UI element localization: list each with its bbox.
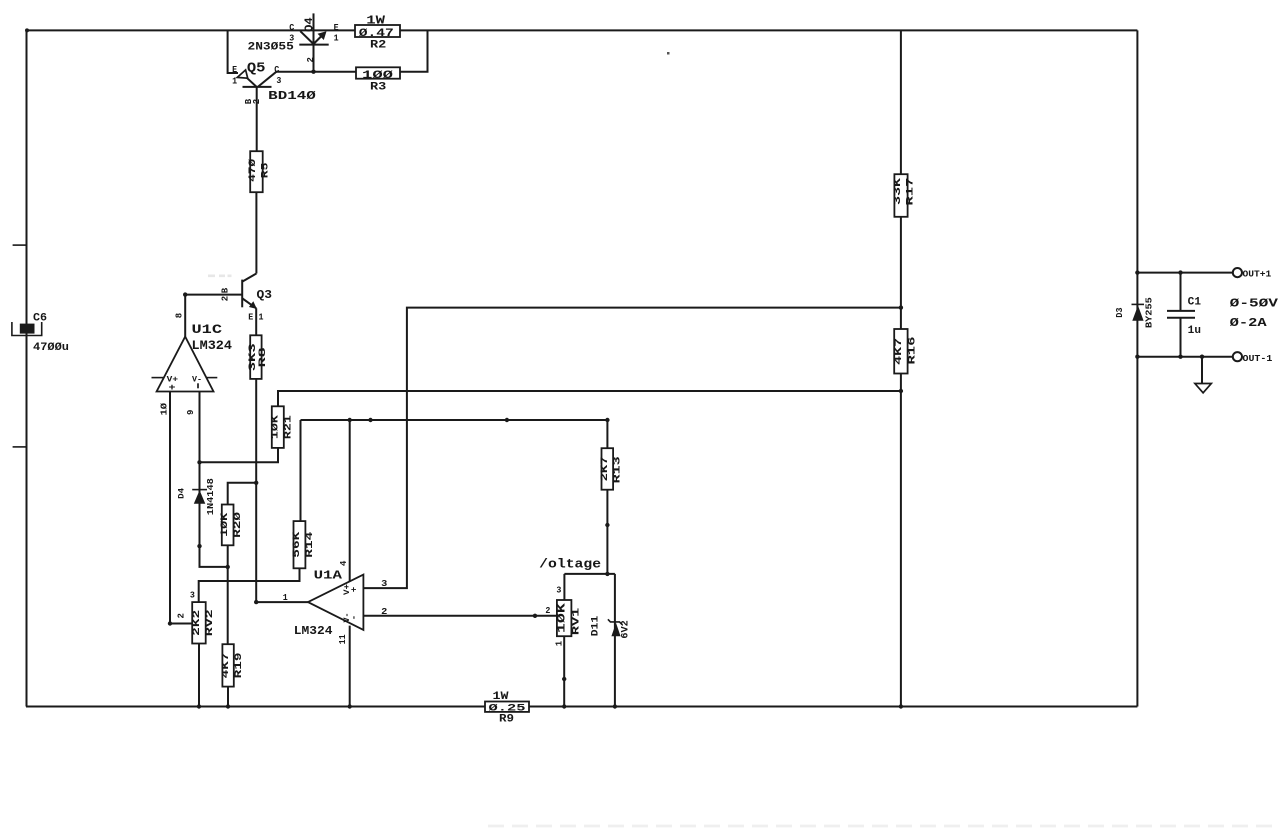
diode D4 1N4148 — [177, 478, 217, 515]
svg-text:E: E — [334, 23, 340, 33]
svg-text:R2Ø: R2Ø — [232, 512, 244, 538]
decor bottom scan dashes — [488, 825, 1280, 828]
svg-text:47Ø: 47Ø — [247, 159, 259, 182]
svg-text:R9: R9 — [499, 714, 514, 726]
svg-text:D11: D11 — [591, 616, 602, 637]
svg-text:R2: R2 — [370, 40, 386, 52]
wire R8 down to U1A output — [255, 379, 257, 602]
capacitor C6 — [12, 312, 69, 354]
wire R14 top lead — [300, 420, 302, 521]
svg-text:B: B — [220, 287, 230, 293]
wire OUT+ row — [1137, 272, 1232, 274]
svg-text:1ØK: 1ØK — [556, 603, 568, 634]
diode D3 BY255 — [1115, 297, 1154, 328]
svg-text:/oltage: /oltage — [539, 557, 601, 572]
svg-text:BD14Ø: BD14Ø — [268, 89, 316, 103]
svg-text:R8: R8 — [258, 347, 269, 367]
junction pin11 rail — [348, 704, 352, 708]
svg-text:Ø.47: Ø.47 — [359, 28, 394, 40]
wire Q5 collector line to R3 and up to rail — [276, 31, 427, 72]
junction bridge at R13 — [605, 572, 609, 576]
wire mid horizontal net to R13 — [301, 420, 608, 448]
wire voltage bridge — [564, 573, 615, 575]
wire RV1 top lead — [563, 574, 565, 600]
svg-text:R17: R17 — [905, 178, 916, 206]
op-amp U1C — [152, 313, 233, 416]
svg-text:1Ø: 1Ø — [160, 402, 170, 415]
svg-text:-: - — [350, 615, 360, 620]
junction mid net on vertical — [899, 305, 903, 309]
svg-text:11: 11 — [338, 634, 348, 645]
junction 2N3055 base on collector line — [311, 70, 315, 74]
resistor R17 — [893, 174, 916, 217]
svg-text:RV1: RV1 — [571, 608, 582, 636]
svg-text:2K7: 2K7 — [600, 456, 611, 481]
junction right mid vertical rail — [899, 704, 903, 708]
wire U1A pin4 — [349, 420, 351, 582]
junction stray mid net 2 — [505, 418, 509, 422]
svg-text:OUT-1: OUT-1 — [1243, 354, 1273, 364]
svg-text:2K2: 2K2 — [192, 610, 203, 636]
svg-text:3: 3 — [190, 591, 195, 601]
svg-text:R16: R16 — [907, 337, 918, 365]
junction RV1 rail — [562, 704, 566, 708]
wire R21 top to R16 bottom long net — [278, 391, 901, 406]
node corner top-left — [25, 28, 29, 32]
junction OUT+ at right rail — [1135, 270, 1139, 274]
junction D11 rail — [613, 704, 617, 708]
svg-text:2: 2 — [545, 606, 550, 616]
wire OUT- row — [1137, 356, 1232, 358]
op-amp U1A — [283, 560, 388, 644]
junction OUT- at right rail — [1135, 355, 1139, 359]
transistor Q3 — [220, 274, 272, 336]
svg-text:1W: 1W — [493, 691, 509, 703]
wire U1A pin3 to net — [363, 308, 901, 588]
svg-text:2: 2 — [306, 57, 316, 62]
svg-text:OUT+1: OUT+1 — [1243, 270, 1272, 280]
svg-text:LM324: LM324 — [294, 624, 333, 638]
svg-text:56K: 56K — [292, 532, 303, 558]
svg-text:2N3Ø55: 2N3Ø55 — [248, 41, 295, 53]
svg-text:Q5: Q5 — [247, 60, 266, 76]
wire R20 top to R8 line — [228, 483, 257, 505]
svg-text:1ØØ: 1ØØ — [362, 70, 394, 82]
svg-text:C: C — [289, 23, 295, 33]
wire Q5 emitter feed from top rail — [228, 30, 238, 73]
resistor R13 — [600, 448, 624, 490]
svg-text:E: E — [232, 65, 238, 75]
capacitor C1 — [1167, 273, 1201, 357]
wire Q3 base to U1C output — [185, 295, 242, 337]
svg-text:E: E — [248, 312, 254, 322]
resistor R14 — [292, 521, 316, 568]
junction stray mid net 1 — [368, 418, 372, 422]
svg-text:2: 2 — [220, 296, 230, 301]
svg-text:+: + — [350, 587, 360, 592]
svg-text:LM324: LM324 — [192, 339, 233, 353]
resistor R20 — [219, 505, 244, 546]
svg-text:Q3: Q3 — [257, 288, 273, 302]
svg-text:Ø-2A: Ø-2A — [1230, 317, 1267, 330]
svg-text:C1: C1 — [1188, 296, 1202, 308]
svg-text:R3: R3 — [370, 82, 387, 94]
wire R5 to Q3 collector — [255, 192, 257, 273]
trimmer RV1 — [545, 586, 582, 647]
wire left rail — [26, 30, 28, 706]
svg-text:R13: R13 — [612, 456, 623, 483]
wire U1C pin9 / D4 line down — [200, 392, 228, 567]
terminal OUT+1 — [1233, 268, 1272, 280]
transistor Q5 BD140 — [232, 60, 316, 151]
svg-text:2: 2 — [177, 613, 187, 618]
zener D11 6V2 — [591, 574, 632, 707]
wire R14 bottom to RV2 top — [199, 568, 300, 602]
svg-text:1N4148: 1N4148 — [205, 478, 216, 515]
wire R21 bottom to pin9 line — [200, 448, 279, 462]
trimmer RV2 — [177, 591, 216, 644]
svg-text:C: C — [274, 65, 280, 75]
resistor R5 — [247, 151, 272, 192]
wire R13 bottom to voltage bridge — [606, 490, 608, 574]
junction R20 bottom — [226, 565, 230, 569]
wire U1C pin10 down to RV2 wiper — [170, 392, 192, 624]
svg-text:1ØK: 1ØK — [219, 513, 231, 537]
junction RV1 lead stray — [562, 677, 566, 681]
svg-text:33K: 33K — [893, 178, 904, 205]
resistor R21 — [269, 406, 294, 448]
junction R13 lead stray — [605, 523, 609, 527]
svg-text:6V2: 6V2 — [621, 620, 632, 638]
decor speck — [667, 52, 670, 55]
wire RV2 bottom to rail — [198, 644, 200, 707]
svg-text:1: 1 — [259, 312, 265, 322]
svg-text:1u: 1u — [1188, 325, 1201, 337]
junction U1A output — [254, 600, 258, 604]
wire U1A output — [256, 601, 308, 603]
svg-text:2: 2 — [252, 99, 262, 104]
svg-text:BY255: BY255 — [1144, 297, 1154, 328]
junction R19 bottom rail — [226, 704, 230, 708]
terminal OUT-1 — [1233, 352, 1273, 364]
svg-text:R5: R5 — [261, 163, 272, 179]
svg-text:V-: V- — [192, 374, 202, 384]
wire R20 bottom to R19 top — [227, 545, 229, 644]
svg-text:Ø-5ØV: Ø-5ØV — [1230, 297, 1278, 310]
junction pin2 wire stray — [533, 614, 537, 618]
svg-text:D4: D4 — [177, 488, 187, 499]
junction pin4 on mid net — [348, 418, 352, 422]
junction D4 line stray — [197, 544, 201, 548]
wire left edge tick 2 — [13, 446, 27, 448]
svg-text:U1C: U1C — [192, 323, 223, 337]
junction RV2 wiper — [168, 621, 172, 625]
resistor R3 — [356, 67, 400, 93]
svg-text:3: 3 — [276, 76, 281, 86]
junction R13 top corner — [605, 418, 609, 422]
junction ground tap — [1200, 355, 1204, 359]
junction U1C output corner — [183, 292, 187, 296]
svg-text:RV2: RV2 — [205, 609, 216, 636]
wire U1A pin2 to RV1 wiper — [363, 615, 557, 617]
svg-text:1: 1 — [232, 76, 238, 86]
wire R17 to R16 — [900, 217, 902, 329]
decor faint scan dashes above U1C — [208, 275, 232, 278]
resistor R9 — [485, 691, 529, 726]
svg-text:R19: R19 — [234, 652, 245, 678]
svg-text:47ØØu: 47ØØu — [33, 342, 69, 354]
ground — [1195, 357, 1211, 393]
svg-text:R14: R14 — [305, 532, 316, 558]
svg-text:3: 3 — [556, 586, 561, 596]
resistor R8 — [248, 335, 269, 379]
svg-text:D3: D3 — [1115, 307, 1125, 317]
svg-text:Q4: Q4 — [304, 17, 316, 32]
svg-text:4: 4 — [339, 560, 349, 566]
junction pin9-R21 wire — [197, 460, 201, 464]
junction R21 net at R16 bottom — [899, 389, 903, 393]
wire bottom rail — [26, 706, 1137, 708]
wire top rail — [27, 29, 1137, 31]
svg-text:1W: 1W — [366, 14, 386, 28]
svg-text:U1A: U1A — [314, 568, 343, 582]
svg-text:9: 9 — [186, 410, 196, 415]
junction RV2 bottom rail — [197, 704, 201, 708]
wire U1A pin11 to rail — [349, 626, 351, 707]
svg-text:R21: R21 — [283, 415, 294, 439]
transistor Q4 2N3055 — [248, 13, 340, 71]
wire right rail — [1136, 30, 1138, 706]
svg-text:1: 1 — [334, 34, 340, 44]
wire RV1 bottom to rail — [563, 636, 565, 706]
svg-text:1: 1 — [554, 640, 564, 646]
wire left edge tick 1 — [13, 244, 27, 246]
svg-text:8: 8 — [175, 313, 185, 318]
junction C1 top — [1178, 270, 1182, 274]
junction R20 top wire on R8 line — [254, 481, 258, 485]
resistor R19 — [221, 644, 245, 686]
svg-text:C6: C6 — [33, 312, 47, 324]
wire right mid vertical top rail to R17 — [900, 30, 902, 174]
svg-text:4K7: 4K7 — [221, 652, 232, 678]
resistor R16 — [894, 329, 919, 374]
resistor R2 — [355, 14, 400, 52]
wire R16 down to rail — [900, 374, 902, 707]
svg-text:1ØK: 1ØK — [269, 415, 281, 439]
wire R19 bottom to rail — [227, 687, 229, 707]
svg-text:4K7: 4K7 — [894, 338, 905, 365]
junction C1 bottom — [1178, 355, 1182, 359]
